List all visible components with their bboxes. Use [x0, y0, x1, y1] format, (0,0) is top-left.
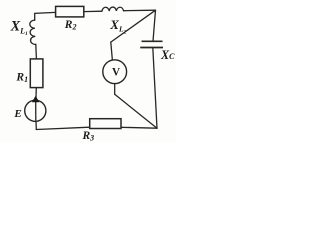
wire — [84, 10, 102, 12]
resistor R3 — [90, 119, 121, 129]
voltmeter V — [103, 60, 127, 84]
resistor R1 — [30, 59, 43, 88]
wire — [35, 121, 37, 130]
wire — [121, 126, 157, 129]
source E — [25, 96, 46, 122]
resistor R2 — [56, 6, 84, 17]
wire — [114, 84, 116, 95]
wire — [36, 127, 89, 129]
wire — [153, 10, 156, 41]
wire — [111, 42, 113, 60]
wire — [153, 48, 157, 129]
inductor XL2 — [102, 7, 124, 11]
inductor XL1 — [30, 20, 36, 44]
svg-text:V: V — [112, 67, 120, 79]
capacitor XC — [140, 41, 163, 47]
wire — [124, 9, 156, 12]
wire — [35, 12, 56, 20]
wire — [115, 94, 157, 128]
wire — [35, 44, 38, 59]
wire — [111, 10, 156, 42]
svg-text:E: E — [13, 108, 21, 120]
wire — [35, 88, 37, 101]
